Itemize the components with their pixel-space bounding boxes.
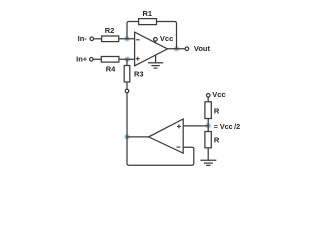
node: non-inverting input junction <box>125 57 130 62</box>
wire: U1 output to Vout terminal <box>168 48 186 50</box>
wire: In- terminal to R2 <box>94 38 102 40</box>
U1 Vcc power pin <box>154 34 174 43</box>
node: U1 output / feedback junction <box>174 46 179 51</box>
wire: non-inverting junction down to R3 <box>126 59 128 65</box>
op-amp U2 (unity-gain buffer, pointing left) <box>149 119 184 153</box>
resistor R (divider bottom) <box>205 132 220 148</box>
wire: R3 bottom to test point <box>126 82 128 89</box>
svg-text:= Vcc /2: = Vcc /2 <box>214 122 240 131</box>
svg-text:R1: R1 <box>143 9 153 18</box>
node: buffer output junction <box>125 134 130 139</box>
wire: bottom R to ground <box>207 148 209 160</box>
terminal In+ <box>76 55 93 64</box>
wire: test point down, bottom feedback rail, up to U2 inverting input <box>127 93 194 165</box>
resistor R4 <box>101 57 119 74</box>
svg-text:R3: R3 <box>134 70 144 79</box>
wire: inverting junction up over R1 rail down to output node <box>127 22 177 49</box>
svg-text:In-: In- <box>78 34 88 43</box>
ground (U1 negative supply) <box>149 55 163 68</box>
wire: top R to Vcc/2 node to bottom R <box>207 119 209 132</box>
svg-text:R: R <box>214 135 220 144</box>
svg-text:Vout: Vout <box>194 44 211 53</box>
ground (divider bottom) <box>201 160 216 165</box>
op-amp U1 <box>135 32 168 66</box>
wire: R2 to inverting junction to op-amp U1 <box>119 38 135 40</box>
svg-text:R: R <box>214 107 220 116</box>
wire: R4 to non-inverting junction to op-amp U1 <box>119 58 135 60</box>
wire: In+ terminal to R4 <box>93 58 101 60</box>
wire: U2 non-inverting input to Vcc/2 node <box>183 125 208 127</box>
wire: buffer output node to U2 apex <box>127 136 149 138</box>
svg-text:R4: R4 <box>106 65 116 74</box>
resistor R (divider top) <box>205 102 220 119</box>
svg-text:R2: R2 <box>105 26 115 35</box>
wire: divider Vcc terminal down to top R <box>207 97 209 102</box>
test point terminal below R3 <box>125 89 129 93</box>
svg-text:In+: In+ <box>76 55 88 64</box>
node: Vcc/2 divider junction <box>206 123 211 128</box>
svg-text:Vcc: Vcc <box>212 90 225 99</box>
svg-text:Vcc: Vcc <box>160 34 173 43</box>
terminal Vcc (divider supply) <box>206 90 225 99</box>
node: inverting input junction <box>125 36 130 41</box>
terminal In- <box>78 34 94 43</box>
resistor R1 <box>139 9 157 25</box>
resistor R3 <box>124 66 143 83</box>
resistor R2 <box>102 26 119 42</box>
terminal Vout <box>185 44 210 53</box>
